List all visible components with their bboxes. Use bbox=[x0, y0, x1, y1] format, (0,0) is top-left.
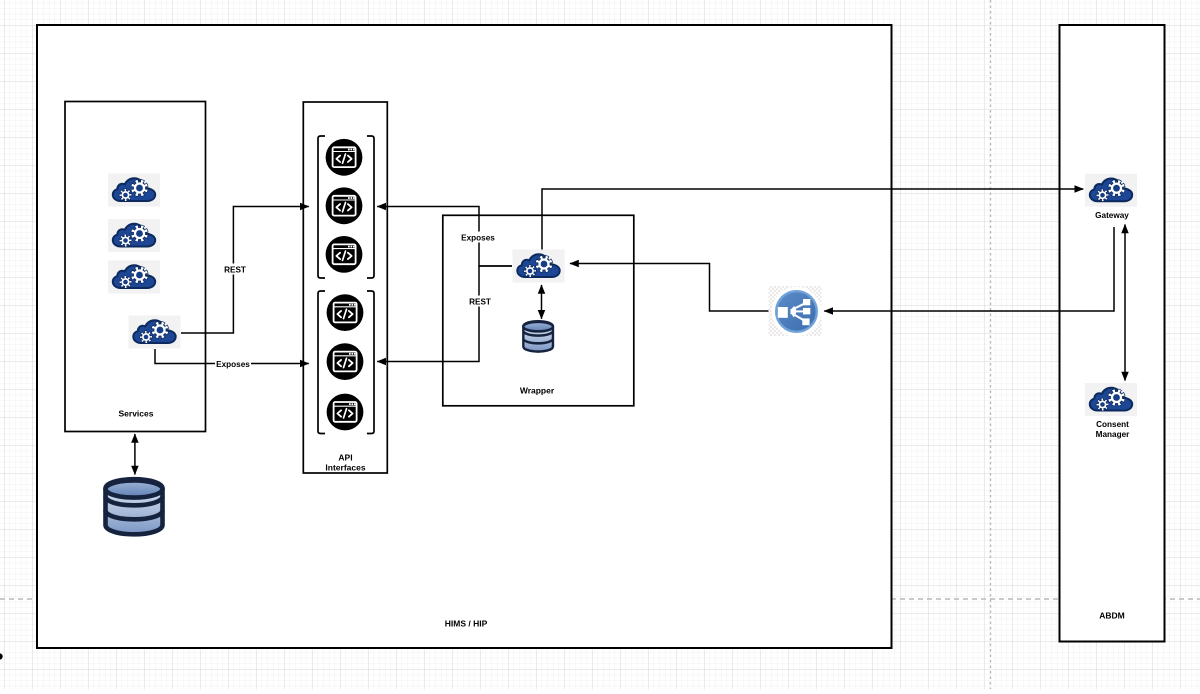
wire ELB to wrapper-cloud bbox=[570, 264, 777, 312]
svg-text:Exposes: Exposes bbox=[216, 360, 250, 369]
svg-text:Wrapper: Wrapper bbox=[520, 386, 555, 396]
wire wrapper-cloud up to Gateway bbox=[542, 189, 1083, 250]
label Exposes (left) bbox=[215, 358, 251, 369]
svg-text:Interfaces: Interfaces bbox=[325, 463, 365, 473]
API circle 6 bbox=[327, 394, 364, 431]
label REST (right) bbox=[467, 296, 493, 307]
bracket group 1 right bbox=[367, 136, 374, 278]
svg-text:Consent: Consent bbox=[1096, 420, 1129, 429]
big database icon bbox=[106, 479, 163, 534]
wire wrapper-cloud to small DB double arrow bbox=[541, 285, 543, 319]
cloud icon services 2 bbox=[108, 219, 160, 252]
bracket group 2 left bbox=[318, 291, 325, 434]
ELB load balancer icon bbox=[769, 286, 822, 336]
page boundary dashed vertical bbox=[990, 0, 992, 689]
API circle 2 bbox=[326, 187, 363, 224]
svg-text:REST: REST bbox=[469, 297, 491, 306]
container HIMS / HIP bbox=[37, 25, 892, 648]
cloud icon wrapper bbox=[513, 250, 565, 283]
cloud icon Gateway bbox=[1085, 174, 1137, 207]
container ABDM bbox=[1060, 25, 1165, 642]
box API Interfaces bbox=[303, 102, 387, 473]
cloud icon Consent Manager bbox=[1085, 383, 1137, 416]
svg-text:ABDM: ABDM bbox=[1099, 611, 1125, 621]
cloud icon services 1 bbox=[108, 174, 160, 207]
API circle 1 bbox=[326, 139, 363, 176]
svg-text:Gateway: Gateway bbox=[1095, 211, 1129, 220]
svg-text:API: API bbox=[338, 453, 352, 463]
wire Gateway/Consent double arrow bbox=[1124, 225, 1126, 381]
wire Services box to big DB double arrow bbox=[134, 434, 136, 475]
page boundary dashed horizontal bbox=[0, 598, 1200, 600]
wire Exposes services-cloud to API group2 bbox=[155, 349, 309, 364]
box Wrapper bbox=[443, 215, 634, 405]
wire REST wrapper-cloud to API group2 (from right) bbox=[377, 266, 512, 362]
svg-text:Services: Services bbox=[119, 409, 154, 419]
svg-text:HIMS / HIP: HIMS / HIP bbox=[445, 619, 488, 629]
svg-text:Manager: Manager bbox=[1096, 430, 1130, 439]
API circle 3 bbox=[326, 236, 363, 273]
API circle 4 bbox=[327, 294, 364, 331]
partial element dot at left edge bbox=[0, 653, 3, 659]
wire REST services-cloud to API group1 bbox=[181, 207, 309, 334]
bracket group 1 left bbox=[318, 136, 325, 278]
cloud icon services 3 bbox=[108, 261, 160, 294]
svg-text:Exposes: Exposes bbox=[461, 233, 495, 242]
small database icon (wrapper) bbox=[523, 321, 553, 351]
wire Gateway down-left to ELB bbox=[824, 227, 1114, 311]
box Services bbox=[65, 102, 206, 432]
wire Exposes wrapper-cloud to API group1 (from right) bbox=[377, 207, 512, 267]
svg-text:REST: REST bbox=[224, 265, 246, 274]
label REST (left) bbox=[222, 264, 248, 275]
cloud icon services 4 bbox=[129, 316, 181, 349]
bracket group 2 right bbox=[367, 291, 374, 434]
API circle 5 bbox=[327, 343, 364, 380]
label Exposes (right) bbox=[460, 232, 496, 243]
